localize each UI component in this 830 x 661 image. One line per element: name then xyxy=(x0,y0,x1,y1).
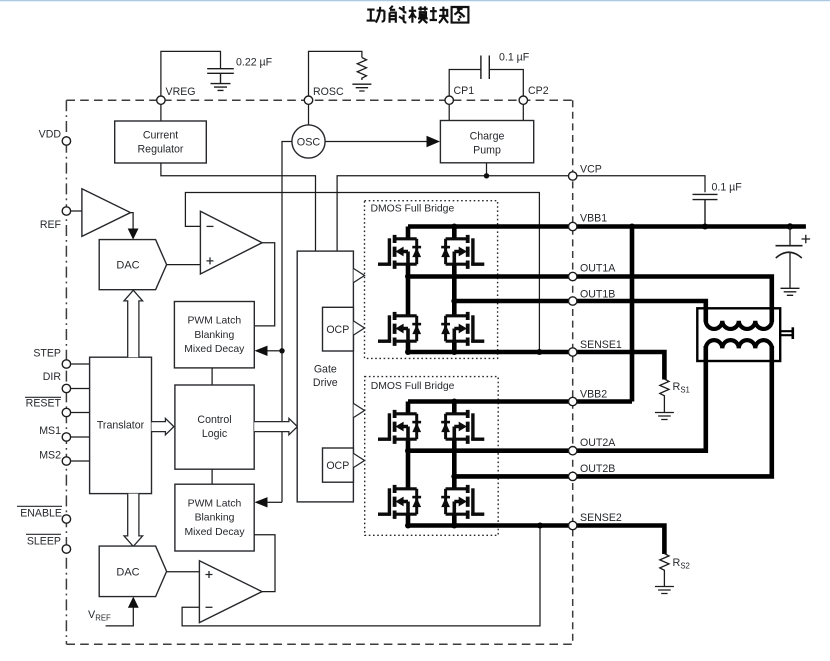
node junction charge pump / VCP xyxy=(484,173,489,178)
svg-text:SENSE1: SENSE1 xyxy=(580,339,622,351)
块 xyxy=(430,7,449,23)
node junction SENSE2 / comparator feedback xyxy=(537,523,543,529)
wire DAC2 output to comparator2 + xyxy=(167,571,200,573)
block PWM Latch 1 xyxy=(174,302,254,368)
capacitor 0.1uF (charge pump) xyxy=(481,56,489,80)
block Gate Drive xyxy=(297,251,353,502)
node junction VBB1/VBB tie xyxy=(629,224,635,230)
wire CP1 to flying cap xyxy=(449,70,481,97)
wire bridge1 left column xyxy=(406,227,411,353)
DAC U1 (upper) xyxy=(99,240,166,290)
wire OSC to Charge Pump (with arrow) xyxy=(325,141,427,143)
DAC U2 (lower) xyxy=(99,546,166,597)
wire ROSC pin to OSC xyxy=(308,104,310,125)
svg-text:SLEEP: SLEEP xyxy=(27,536,61,548)
dashed box DMOS Full Bridge 2 xyxy=(365,377,499,536)
svg-text:OUT2B: OUT2B xyxy=(580,463,615,475)
svg-text:DIR: DIR xyxy=(43,371,62,383)
title 功能模块图 (hand drawn glyph strokes) xyxy=(367,6,469,23)
motor body xyxy=(697,308,780,361)
pin SENSE1 xyxy=(569,348,577,356)
wire comparator2 minus to SENSE2 xyxy=(182,526,540,626)
svg-text:REF: REF xyxy=(40,219,62,231)
transistor Q2 bridge1 high-B xyxy=(441,235,484,269)
wire CP2 pin to Charge Pump xyxy=(522,104,524,121)
bus arrow Control Logic to Gate Drive xyxy=(254,418,297,434)
ground bulk capacitor xyxy=(781,288,800,295)
wire DAC1 output to comparator + xyxy=(167,264,201,266)
wire VBB1 to VBB2 tie xyxy=(630,227,635,402)
wire OUT2A (thick) xyxy=(408,346,706,451)
svg-text:0.1 µF: 0.1 µF xyxy=(712,182,743,194)
wire SENSE2 (thick) xyxy=(408,526,664,555)
transistor Q6 bridge2 high-B xyxy=(441,410,484,444)
op-amp comparator 1 xyxy=(200,211,262,274)
wire OUT2B (thick) xyxy=(454,346,772,476)
svg-text:PWM Latch: PWM Latch xyxy=(187,316,241,327)
decorative top blue rule xyxy=(0,0,830,1)
svg-text:RS1: RS1 xyxy=(673,381,690,395)
gate drive arrow to bridge2 high side xyxy=(354,404,365,418)
svg-text:VBB2: VBB2 xyxy=(580,389,607,401)
transistor Q4 bridge1 low-B xyxy=(441,312,484,346)
transistor Q8 bridge2 low-B xyxy=(441,485,484,519)
op-amp REF buffer xyxy=(82,189,131,237)
svg-text:0.1 µF: 0.1 µF xyxy=(499,52,530,64)
wire VBB1 rail (thick) xyxy=(408,224,806,229)
wire SENSE1 (thick) xyxy=(408,352,664,380)
svg-text:Control: Control xyxy=(197,414,231,426)
block Current Regulator xyxy=(115,121,207,163)
svg-text:Drive: Drive xyxy=(313,377,338,389)
svg-text:OUT1B: OUT1B xyxy=(580,289,615,301)
pin STEP xyxy=(71,363,90,365)
pin OUT2B xyxy=(569,472,577,480)
图 xyxy=(452,7,469,23)
capacitor 0.22uF xyxy=(207,69,234,91)
block PWM Latch 2 xyxy=(175,484,254,551)
wire Control Logic to PWM2 xyxy=(211,469,213,484)
wire comparator2 output to PWM latch 2 xyxy=(254,535,275,592)
wire VCP net (charge pump output) xyxy=(337,176,705,251)
svg-text:VDD: VDD xyxy=(39,129,62,141)
wire comparator1 minus to SENSE1 xyxy=(185,193,539,353)
模 xyxy=(409,6,428,23)
wire CP1 pin to Charge Pump xyxy=(448,104,450,121)
功 xyxy=(367,7,385,23)
svg-text:Gate: Gate xyxy=(314,364,337,376)
svg-text:CP1: CP1 xyxy=(454,85,475,97)
pin SENSE2 xyxy=(569,521,577,529)
wire VBB2 rail (thick) xyxy=(408,399,632,404)
wire VREF into DAC2 (arrow up) xyxy=(106,606,134,626)
wire VREG pin to Current Regulator xyxy=(160,104,162,121)
capacitor bulk electrolytic xyxy=(789,227,791,246)
svg-text:OUT2A: OUT2A xyxy=(580,437,616,449)
block Control Logic xyxy=(175,385,254,469)
svg-text:PWM Latch: PWM Latch xyxy=(188,499,242,510)
op-amp OSC oscillator xyxy=(292,125,325,158)
pin CP1 xyxy=(445,96,453,104)
resistor ROSC xyxy=(352,58,371,92)
wire REF pin to buffer xyxy=(71,210,82,212)
pin REF xyxy=(62,207,70,215)
gate drive arrow OCP1 to bridge1 low side xyxy=(354,321,365,335)
chip boundary right edge xyxy=(572,100,574,644)
bus arrow Translator to DAC2 (down) xyxy=(124,494,143,547)
bus arrow Translator to DAC1 (up) xyxy=(124,290,143,357)
svg-text:MS2: MS2 xyxy=(39,450,61,462)
svg-text:Regulator: Regulator xyxy=(138,143,184,155)
svg-text:Blanking: Blanking xyxy=(195,513,235,524)
node junction OSC line at PWM1 xyxy=(279,348,284,353)
transistor Q7 bridge2 low-A xyxy=(378,485,421,519)
wire ROSC to resistor xyxy=(309,51,362,96)
svg-text:MS1: MS1 xyxy=(39,425,61,437)
svg-text:DMOS Full Bridge: DMOS Full Bridge xyxy=(371,381,455,392)
transistor Q5 bridge2 high-A xyxy=(378,410,421,444)
pin SLEEP (active low) xyxy=(62,545,70,553)
svg-text:OCP: OCP xyxy=(326,460,349,472)
svg-text:Mixed Decay: Mixed Decay xyxy=(184,527,245,538)
block Translator xyxy=(90,357,152,493)
wire Charge Pump bottom to VCP net xyxy=(486,163,488,176)
node junction VBB1 / bulk cap xyxy=(787,223,793,229)
pin OUT2A xyxy=(569,447,577,455)
svg-text:ENABLE: ENABLE xyxy=(20,508,62,520)
block OCP 2 xyxy=(323,448,354,482)
resistor RS1 xyxy=(660,379,669,412)
svg-text:DMOS Full Bridge: DMOS Full Bridge xyxy=(371,204,455,215)
wire OSC branch arrow into PWM latch 1 xyxy=(266,350,282,352)
node junction SENSE1 / comparator feedback xyxy=(536,349,542,355)
wire Current Regulator output to Gate Drive xyxy=(161,163,316,251)
block OCP 1 xyxy=(323,307,354,351)
pin OUT1A xyxy=(569,272,577,280)
block Charge Pump xyxy=(440,121,533,163)
chip boundary top edge xyxy=(66,99,572,101)
wire OUT1A (thick) xyxy=(408,277,772,323)
能 xyxy=(390,6,407,23)
svg-text:CP2: CP2 xyxy=(528,85,549,97)
transistor Q3 bridge1 low-A xyxy=(378,312,421,346)
dashed box DMOS Full Bridge 1 xyxy=(365,201,498,359)
pin VCP xyxy=(569,172,577,180)
svg-text:SENSE2: SENSE2 xyxy=(580,512,622,524)
wire OUT1B (thick) xyxy=(454,301,706,322)
svg-text:Blanking: Blanking xyxy=(194,330,234,341)
svg-text:DAC: DAC xyxy=(116,260,139,272)
pin VDD xyxy=(62,137,70,145)
gate drive arrow OCP2 to bridge2 low side xyxy=(354,454,365,468)
pin CP2 xyxy=(519,96,527,104)
svg-text:0.22 µF: 0.22 µF xyxy=(236,57,273,69)
node junctions bridge2 xyxy=(451,399,457,405)
svg-text:VREF: VREF xyxy=(88,609,111,623)
pin MS2 xyxy=(71,460,90,462)
wire comparator1 output to PWM latch 1 xyxy=(254,243,274,326)
chip boundary bottom edge xyxy=(66,643,572,645)
pin DIR xyxy=(71,388,90,390)
node junction VBB1 / 0.1uF cap xyxy=(702,224,708,230)
pin VBB2 xyxy=(569,397,577,405)
capacitor 0.1uF (VCP to VBB1) xyxy=(693,194,718,226)
ground RS2 xyxy=(655,587,674,594)
svg-text:Logic: Logic xyxy=(202,428,228,440)
pin ENABLE (active low) xyxy=(62,515,70,523)
svg-text:OSC: OSC xyxy=(297,137,321,149)
svg-text:RESET: RESET xyxy=(26,398,62,410)
op-amp comparator 2 xyxy=(199,561,262,623)
svg-text:Charge: Charge xyxy=(470,131,505,143)
transistor Q1 bridge1 high-A xyxy=(378,235,421,269)
wire OSC output down to PWM latches xyxy=(282,142,292,503)
inductor winding phase 2 xyxy=(706,340,772,449)
wire bridge1 right column xyxy=(452,227,457,353)
pin VBB1 xyxy=(569,222,577,230)
pin RESET (active low) xyxy=(71,412,90,414)
wire PWM1 to Control Logic xyxy=(211,368,213,385)
svg-text:Current: Current xyxy=(143,129,178,141)
pin VREG xyxy=(157,96,165,104)
wire buffer output into DAC1 (arrow down) xyxy=(131,213,134,230)
wire CP2 to flying cap xyxy=(489,70,523,97)
svg-text:Mixed Decay: Mixed Decay xyxy=(184,344,245,355)
svg-text:VREG: VREG xyxy=(166,86,196,98)
ground RS1 xyxy=(655,413,674,420)
bus arrow Translator to Control Logic xyxy=(152,418,174,434)
svg-text:OUT1A: OUT1A xyxy=(580,263,616,275)
svg-text:VCP: VCP xyxy=(580,164,602,176)
gate drive arrow to bridge1 high side xyxy=(354,269,365,283)
resistor RS2 xyxy=(660,554,669,587)
wire bridge2 left column xyxy=(406,402,411,526)
inductor winding phase 1 xyxy=(706,303,772,329)
svg-text:Pump: Pump xyxy=(473,145,501,157)
svg-text:Translator: Translator xyxy=(97,420,145,432)
wire VREG to 0.22uF cap xyxy=(161,51,221,96)
wire bridge2 right column xyxy=(452,402,457,526)
pin OUT1B xyxy=(569,297,577,305)
svg-text:DAC: DAC xyxy=(116,567,139,579)
svg-text:ROSC: ROSC xyxy=(313,86,344,98)
motor shaft xyxy=(780,331,792,335)
svg-text:VBB1: VBB1 xyxy=(580,213,607,225)
svg-text:RS2: RS2 xyxy=(673,557,690,571)
svg-text:OCP: OCP xyxy=(326,324,349,336)
chip boundary left edge xyxy=(65,100,67,644)
pin MS1 xyxy=(71,436,90,438)
wire OSC branch arrow into PWM latch 2 xyxy=(255,497,268,507)
node junctions bridge1 xyxy=(451,224,457,230)
pin ROSC xyxy=(304,96,312,104)
svg-text:STEP: STEP xyxy=(33,348,61,360)
